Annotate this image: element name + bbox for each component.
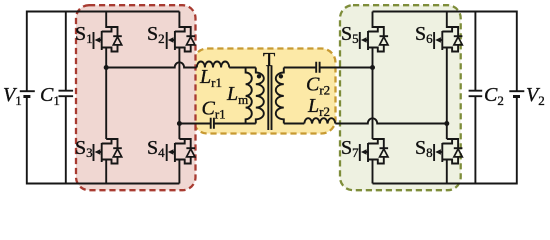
svg-text:T: T (263, 49, 275, 71)
junction node leg1 midpoint (104, 65, 109, 70)
secondary dot (279, 74, 283, 78)
junction node leg2 midpoint (177, 121, 182, 126)
secondary winding (276, 68, 284, 124)
wire leg3 mid vertical (372, 48, 374, 140)
capacitor Cr2 (306, 62, 330, 98)
wire top rail left (27, 12, 180, 92)
transistor S5 (341, 12, 388, 52)
capacitor C1 (40, 84, 73, 108)
transistor S7 (341, 137, 388, 184)
wire leg1 mid vertical (105, 48, 107, 140)
primary winding (256, 68, 264, 124)
transistor S4 (147, 137, 195, 184)
transistor S3 (75, 137, 122, 184)
voltage source V2 (509, 84, 544, 108)
wire leg2 mid vertical (178, 48, 180, 140)
inductor Lm (magnetizing) (226, 68, 252, 124)
wire bottom rail left (27, 97, 180, 184)
capacitor Cr1 (202, 98, 226, 129)
transistor S2 (147, 12, 195, 52)
transistor S1 (75, 12, 122, 52)
wire B: leg2 midpoint to Cr1 (179, 123, 210, 125)
primary dot (257, 74, 261, 78)
core (268, 66, 271, 131)
wire B right: Lr2 to leg4 with hop over leg3 (335, 118, 447, 123)
wire A2: Cr2 to leg3 midpoint (320, 67, 373, 69)
junction node leg4 midpoint (444, 121, 449, 126)
transformer T (256, 49, 284, 130)
voltage source V1 (3, 84, 35, 108)
wire top rail right (373, 12, 517, 92)
wire secondary bottom to Lr2 (284, 123, 305, 125)
wire C1 branch vertical (65, 12, 67, 184)
resonant tank dashed box (193, 49, 335, 134)
transistor S6 (415, 12, 462, 52)
transistor S8 (415, 137, 462, 184)
wire C2 branch vertical (474, 12, 476, 184)
inductor Lr2 (304, 95, 335, 124)
bridge 2 dashed box (340, 5, 461, 190)
wire bottom rail right (373, 97, 517, 184)
wire A: leg1 midpoint to tank with hop over leg2 (106, 62, 197, 67)
capacitor C2 (469, 84, 504, 108)
wire B2: Cr1 to transformer primary bottom (214, 123, 256, 125)
inductor Lr1 (197, 62, 229, 91)
wire leg4 mid vertical (446, 48, 448, 140)
junction node leg3 midpoint (370, 65, 375, 70)
bridge 1 dashed box (76, 5, 196, 190)
wire A tank: Lr1 to primary top (229, 67, 256, 69)
wire secondary top to Cr2 (284, 67, 316, 69)
